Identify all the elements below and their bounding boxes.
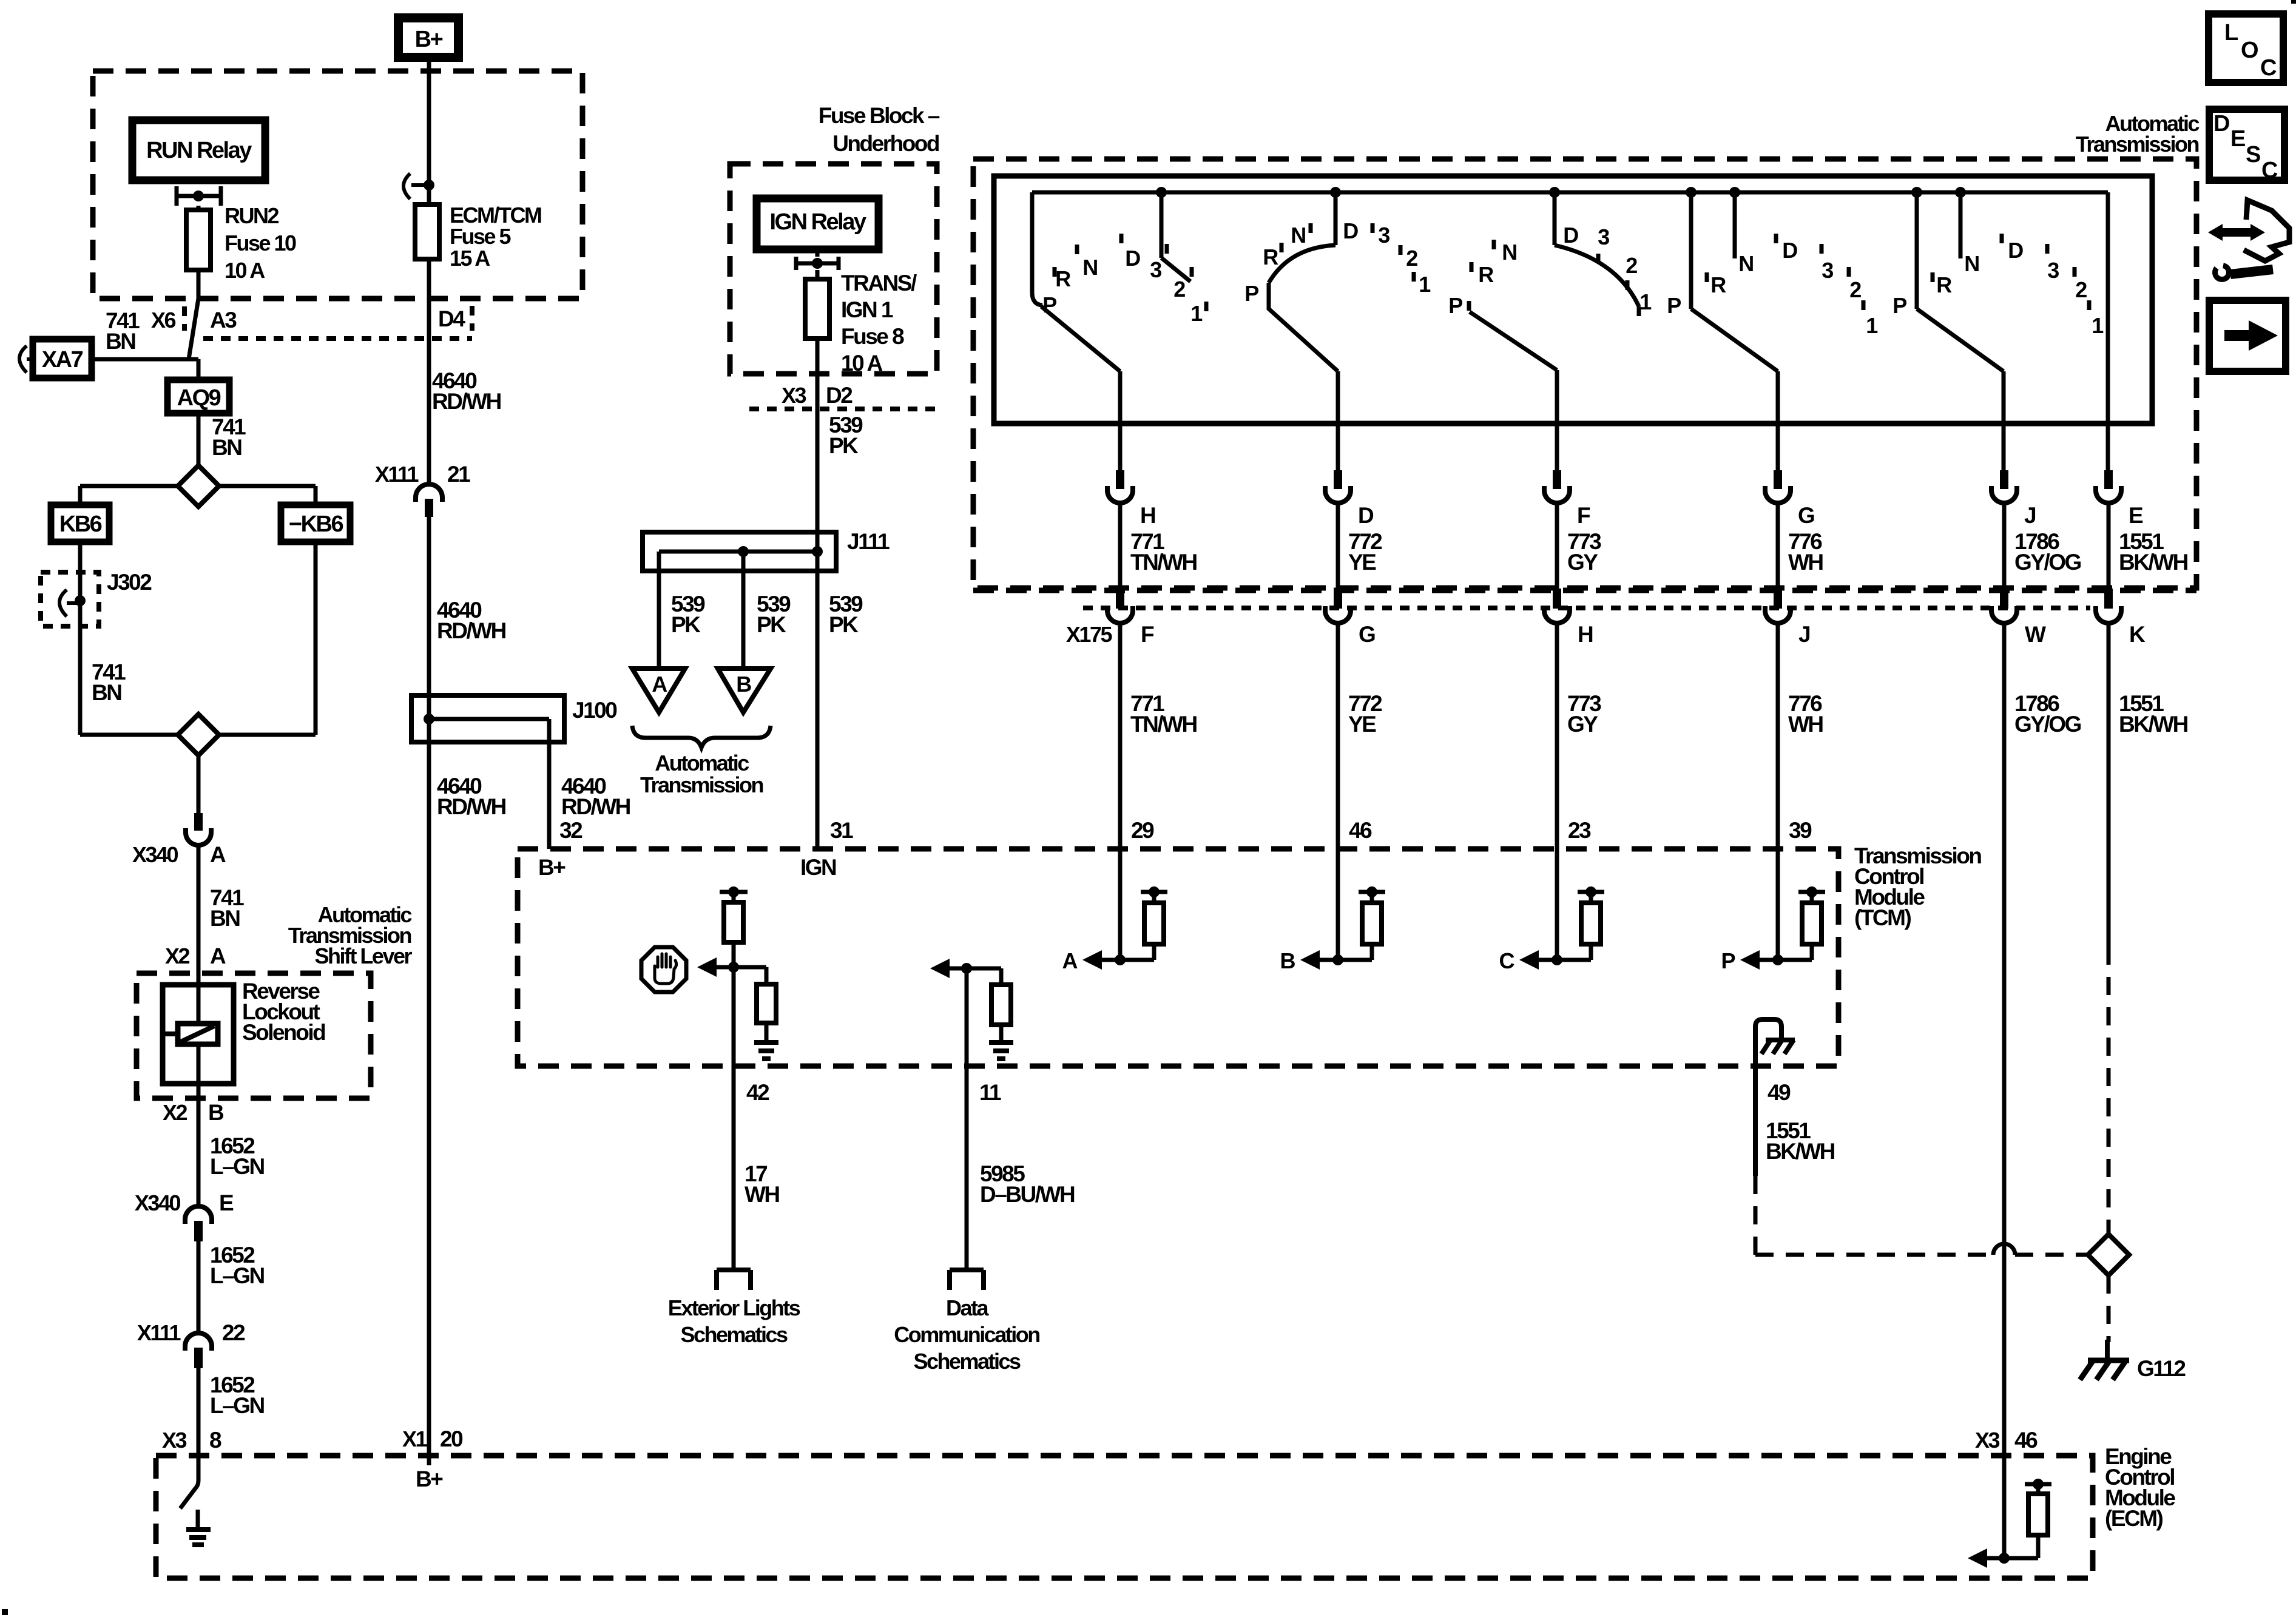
svg-text:Schematics: Schematics [913,1349,1021,1374]
svg-text:Fuse Block –: Fuse Block – [819,103,940,128]
svg-text:R: R [1478,262,1494,287]
svg-text:PK: PK [829,612,859,637]
svg-text:P: P [1721,948,1735,973]
svg-text:RD/WH: RD/WH [437,618,506,643]
svg-text:P: P [1893,293,1906,318]
svg-text:IGN Relay: IGN Relay [769,209,866,235]
svg-text:BK/WH: BK/WH [2119,550,2188,575]
svg-text:Transmission: Transmission [640,772,763,797]
svg-text:49: 49 [1768,1080,1791,1105]
svg-text:2: 2 [2075,277,2087,302]
svg-text:X2: X2 [163,1100,187,1125]
svg-text:42: 42 [746,1080,769,1105]
svg-text:D: D [2213,111,2229,137]
svg-text:P: P [1448,293,1462,318]
svg-text:L–GN: L–GN [210,1263,264,1288]
svg-text:IGN 1: IGN 1 [841,297,893,322]
svg-text:2: 2 [1626,253,1637,278]
svg-text:Shift Lever: Shift Lever [314,944,412,968]
svg-text:X3: X3 [1975,1428,2000,1453]
svg-text:20: 20 [440,1426,463,1451]
svg-text:YE: YE [1348,712,1376,737]
svg-text:W: W [2025,622,2046,647]
svg-text:PK: PK [757,612,786,637]
svg-text:D2: D2 [826,383,853,408]
svg-text:WH: WH [745,1182,779,1207]
svg-text:10 A: 10 A [841,351,883,376]
svg-text:PK: PK [671,612,701,637]
svg-text:H: H [1140,503,1155,528]
svg-text:Exterior Lights: Exterior Lights [668,1295,800,1320]
svg-text:2: 2 [1173,277,1185,302]
svg-text:Fuse 5: Fuse 5 [450,224,512,249]
svg-text:G112: G112 [2137,1356,2186,1381]
svg-text:GY/OG: GY/OG [2014,550,2081,575]
svg-text:2: 2 [1406,246,1417,271]
svg-text:Transmission: Transmission [2076,132,2199,157]
svg-text:P: P [1042,292,1056,317]
svg-text:GY: GY [1567,712,1598,737]
svg-text:X3: X3 [162,1428,187,1453]
svg-text:O: O [2241,38,2258,63]
svg-text:3: 3 [1598,224,1609,249]
svg-text:PK: PK [829,433,859,458]
svg-text:32: 32 [559,818,582,843]
svg-text:Underhood: Underhood [832,131,939,156]
svg-text:E: E [219,1190,234,1215]
svg-text:X1: X1 [402,1426,428,1451]
svg-text:BN: BN [212,435,241,460]
svg-text:RUN Relay: RUN Relay [146,138,252,163]
svg-text:WH: WH [1788,550,1823,575]
svg-text:C: C [1499,948,1515,973]
svg-text:X340: X340 [132,842,178,867]
svg-text:Communication: Communication [894,1322,1039,1347]
svg-text:J: J [2024,503,2036,528]
svg-text:1: 1 [1190,301,1203,326]
svg-text:RD/WH: RD/WH [561,794,630,819]
svg-text:GY: GY [1567,550,1598,575]
svg-text:D: D [1563,223,1578,248]
svg-text:A: A [652,672,667,697]
svg-text:D: D [2008,238,2023,263]
svg-text:1: 1 [2092,313,2104,338]
svg-text:A: A [210,944,226,968]
svg-text:N: N [1082,255,1097,280]
svg-text:YE: YE [1348,550,1376,575]
svg-text:R: R [1263,245,1278,269]
svg-text:B: B [208,1100,224,1125]
svg-text:K: K [2129,622,2146,647]
svg-text:3: 3 [1150,257,1161,282]
svg-text:H: H [1578,622,1593,647]
svg-text:2: 2 [1849,277,1861,302]
svg-text:P: P [1244,281,1258,306]
svg-text:X175: X175 [1066,622,1113,647]
svg-text:X3: X3 [782,383,806,408]
svg-text:XA7: XA7 [42,347,83,373]
svg-text:D: D [1343,218,1358,243]
svg-text:N: N [1738,251,1753,276]
svg-text:F: F [1577,503,1590,528]
svg-text:A3: A3 [210,308,237,333]
svg-text:BN: BN [106,329,135,354]
svg-text:D: D [1782,238,1797,263]
svg-text:N: N [1291,223,1305,248]
svg-text:G: G [1359,622,1375,647]
svg-text:Fuse 8: Fuse 8 [841,324,904,349]
svg-text:Data: Data [946,1295,990,1320]
svg-text:−KB6: −KB6 [289,511,343,537]
svg-text:BN: BN [210,906,240,931]
svg-text:X111: X111 [375,462,419,487]
svg-text:TN/WH: TN/WH [1130,712,1197,737]
svg-text:P: P [1667,293,1681,318]
svg-text:B+: B+ [415,27,443,52]
svg-text:TRANS/: TRANS/ [841,271,917,295]
svg-text:39: 39 [1789,818,1812,843]
svg-text:D4: D4 [438,306,465,331]
svg-text:3: 3 [1378,223,1389,248]
svg-text:31: 31 [830,818,853,843]
svg-text:Automatic: Automatic [655,751,749,775]
svg-text:29: 29 [1131,818,1154,843]
svg-text:RD/WH: RD/WH [437,794,506,819]
svg-text:AQ9: AQ9 [177,385,221,411]
svg-text:IGN: IGN [800,855,836,880]
svg-text:Schematics: Schematics [680,1322,788,1347]
svg-text:S: S [2246,142,2260,167]
svg-text:10 A: 10 A [225,258,265,283]
svg-text:WH: WH [1788,712,1823,737]
svg-text:3: 3 [2047,258,2059,283]
svg-text:R: R [1936,272,1952,297]
svg-text:G: G [1798,503,1814,528]
svg-text:B: B [736,672,751,697]
svg-text:X6: X6 [151,308,176,333]
svg-text:Solenoid: Solenoid [242,1020,325,1045]
svg-text:TN/WH: TN/WH [1130,550,1197,575]
svg-text:X111: X111 [137,1320,181,1345]
svg-text:F: F [1141,622,1154,647]
svg-text:R: R [1710,272,1726,297]
svg-text:Fuse 10: Fuse 10 [225,231,296,255]
svg-text:21: 21 [447,462,470,487]
svg-text:E: E [2230,126,2245,152]
svg-text:22: 22 [222,1320,245,1345]
svg-text:BK/WH: BK/WH [2119,712,2188,737]
svg-text:RUN2: RUN2 [225,203,279,228]
svg-text:(ECM): (ECM) [2105,1506,2163,1531]
svg-text:1: 1 [1639,289,1652,314]
svg-text:D: D [1358,503,1374,528]
svg-text:1: 1 [1419,272,1431,297]
svg-text:1: 1 [1866,313,1878,338]
svg-text:15 A: 15 A [450,246,490,271]
svg-text:J: J [1798,622,1810,647]
svg-text:X2: X2 [165,944,190,968]
svg-text:D: D [1125,246,1140,271]
svg-text:X340: X340 [135,1190,181,1215]
svg-text:8: 8 [209,1428,221,1453]
svg-text:GY/OG: GY/OG [2014,712,2081,737]
svg-text:46: 46 [2014,1428,2038,1453]
svg-text:J302: J302 [107,570,152,595]
svg-text:B+: B+ [538,855,566,880]
svg-text:R: R [1055,266,1071,291]
svg-text:B: B [1280,948,1295,973]
svg-text:E: E [2129,503,2143,528]
svg-text:J111: J111 [847,529,890,554]
svg-text:11: 11 [979,1080,1001,1105]
svg-text:KB6: KB6 [59,511,102,537]
svg-text:N: N [1502,240,1516,265]
svg-text:L: L [2224,20,2238,46]
svg-text:A: A [1062,948,1078,973]
svg-text:RD/WH: RD/WH [432,389,501,414]
svg-text:L–GN: L–GN [210,1393,264,1418]
svg-text:C: C [2260,55,2277,81]
svg-text:J100: J100 [572,698,617,723]
svg-text:BN: BN [92,680,121,705]
svg-text:C: C [2261,158,2278,183]
svg-text:L–GN: L–GN [210,1154,264,1179]
svg-text:B+: B+ [416,1467,443,1491]
svg-text:N: N [1964,251,1979,276]
svg-text:D–BU/WH: D–BU/WH [980,1182,1075,1207]
svg-text:23: 23 [1568,818,1591,843]
svg-text:(TCM): (TCM) [1854,905,1911,930]
svg-text:46: 46 [1349,818,1372,843]
svg-text:3: 3 [1822,258,1833,283]
svg-text:A: A [210,842,226,867]
svg-text:BK/WH: BK/WH [1766,1139,1835,1164]
